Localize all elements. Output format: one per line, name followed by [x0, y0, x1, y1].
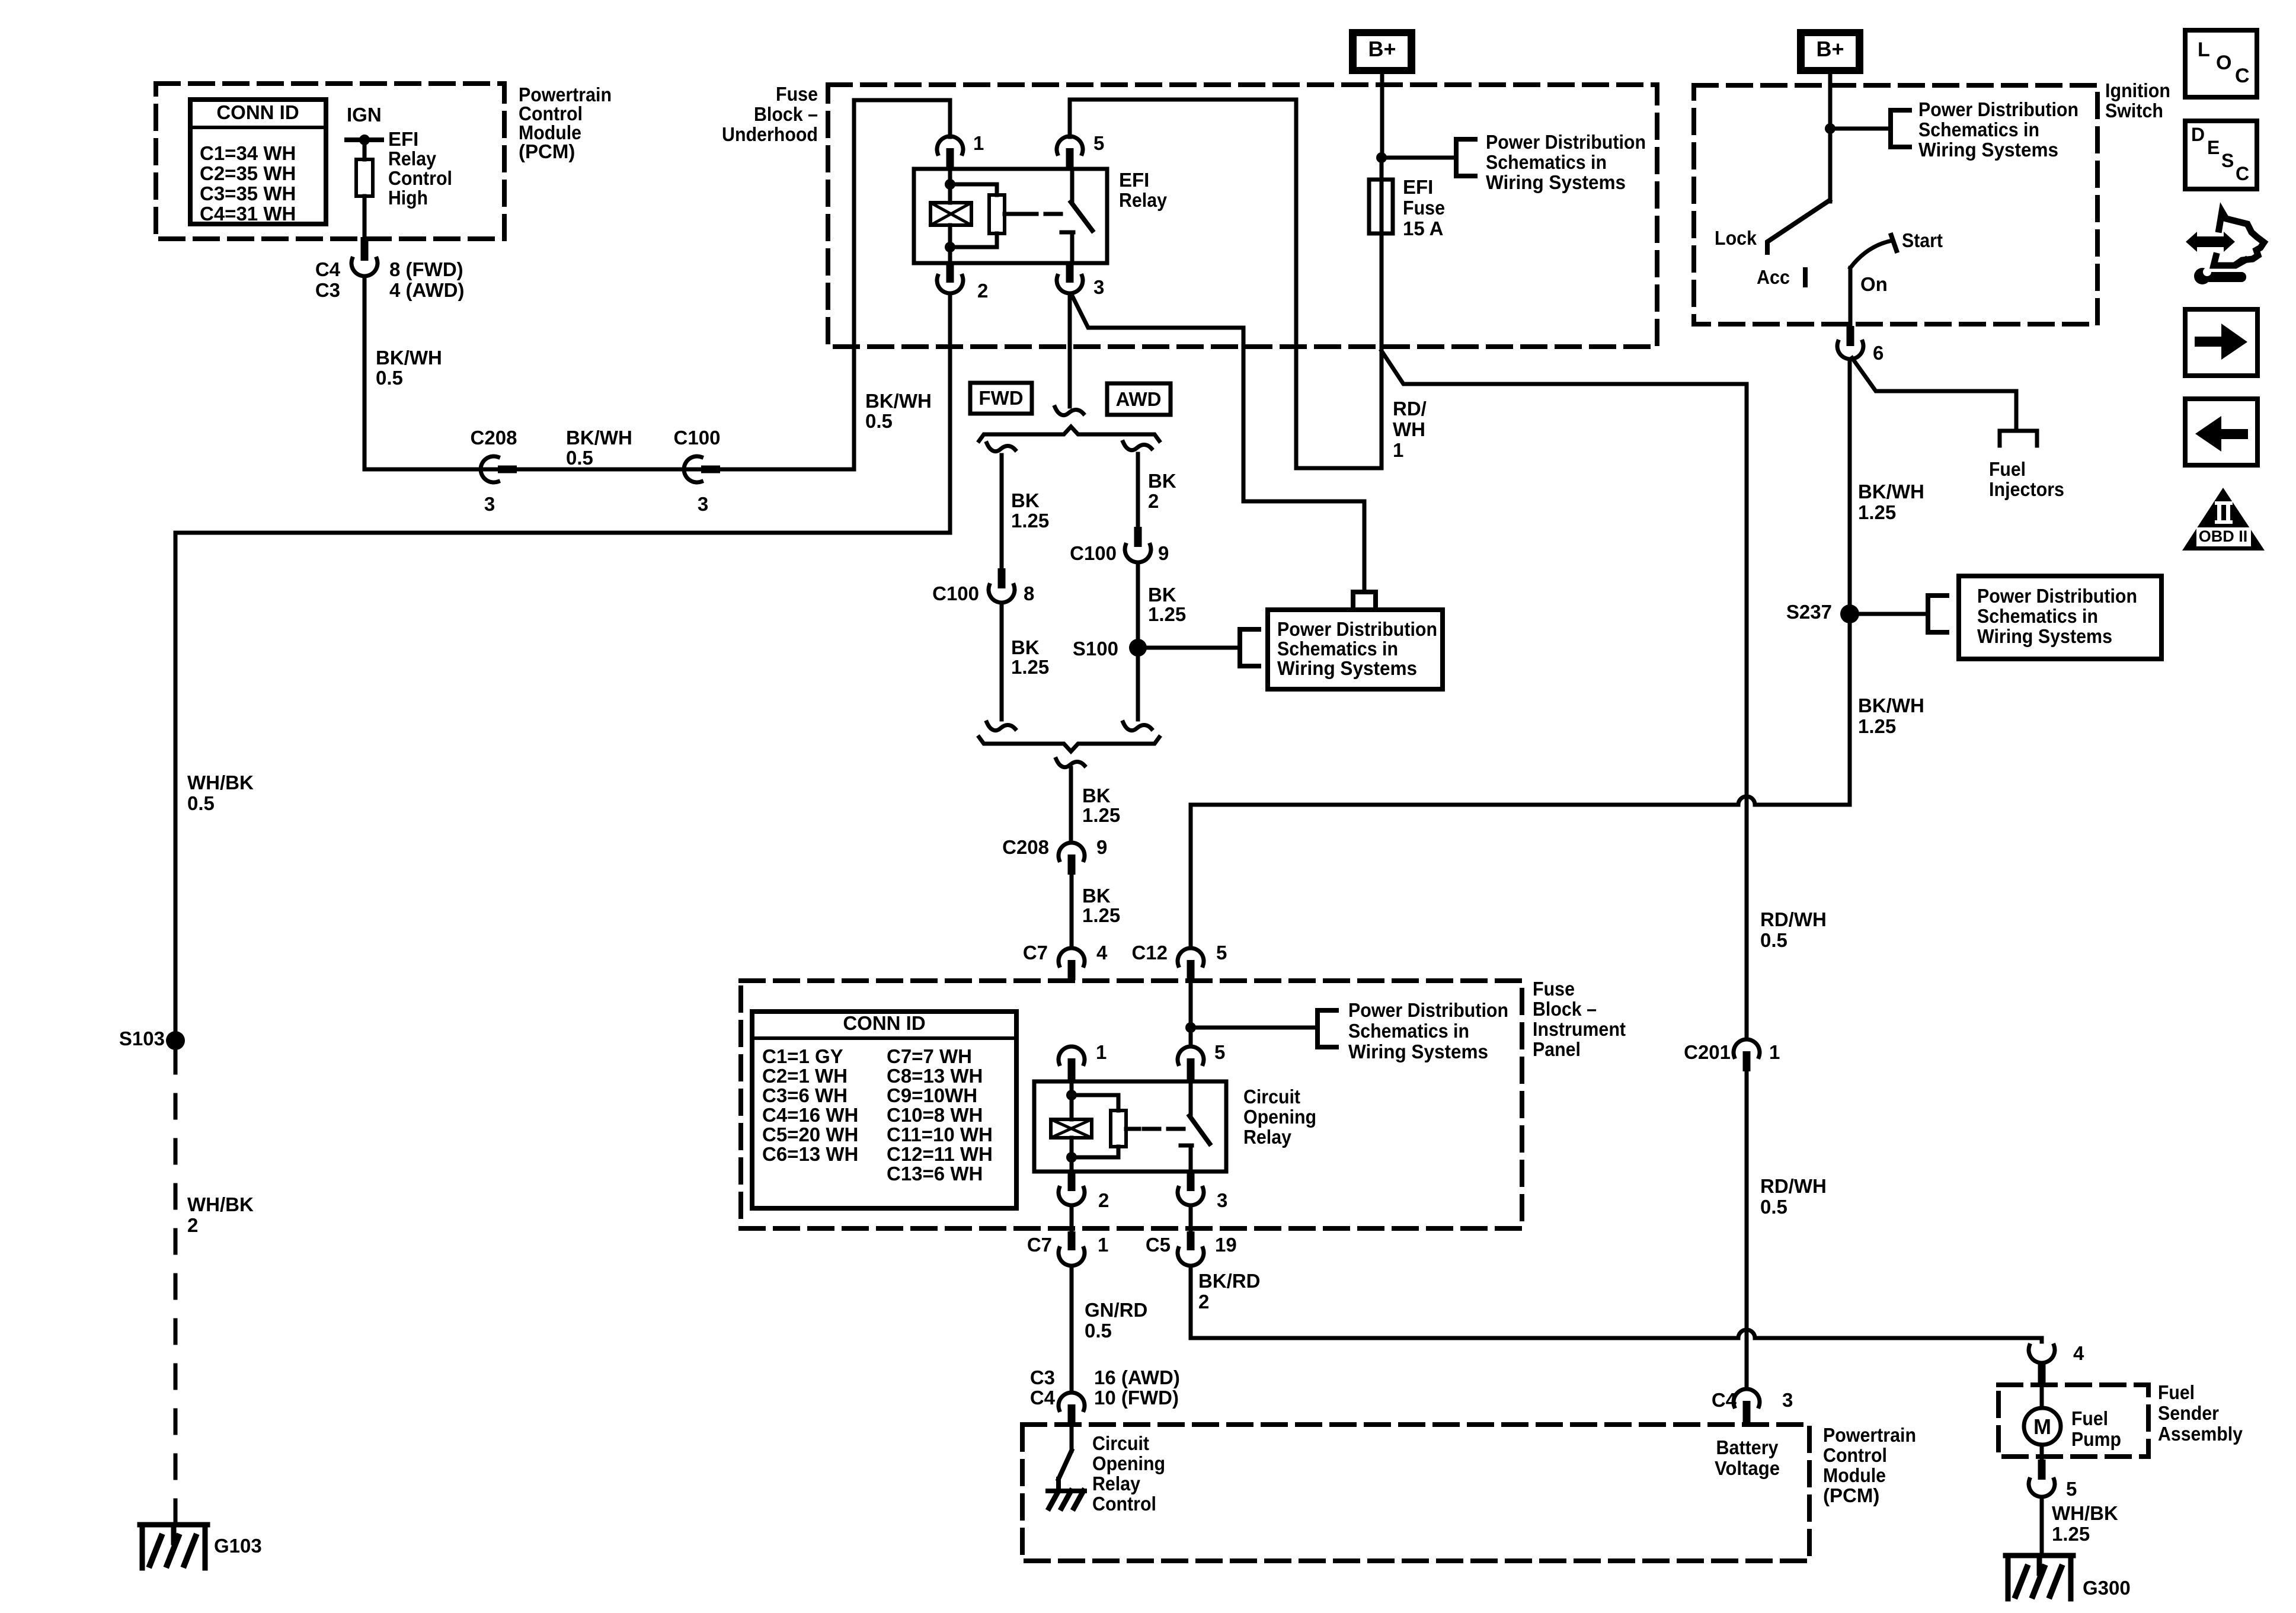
svg-text:Block –: Block – — [754, 103, 818, 125]
pointer bracket to Power Distribution (S100 box top) — [1353, 592, 1376, 608]
label BK/WH 1.25 (lower) — [1858, 695, 1924, 737]
svg-text:WH/BK: WH/BK — [187, 1193, 254, 1215]
svg-text:C208: C208 — [471, 427, 517, 449]
connector C3/C4 pin 16/10 — [1030, 1366, 1180, 1426]
svg-text:BK: BK — [1148, 584, 1176, 606]
svg-text:5: 5 — [1093, 132, 1104, 154]
svg-text:Wiring Systems: Wiring Systems — [1918, 139, 2058, 161]
wire pin3 to split — [1068, 293, 1072, 407]
svg-text:Schematics in: Schematics in — [1977, 605, 2098, 627]
label WH/BK 1.25 (fuel) — [2052, 1502, 2118, 1545]
CONN ID table (PCM) — [190, 100, 326, 225]
svg-text:4 (AWD): 4 (AWD) — [389, 279, 465, 301]
svg-text:Powertrain: Powertrain — [1823, 1424, 1916, 1446]
EFI relay pin 1 connector — [937, 100, 984, 169]
svg-text:C10=8 WH: C10=8 WH — [887, 1104, 983, 1126]
Fuse Block - Instrument Panel box (dashed) — [741, 981, 1522, 1228]
svg-text:1: 1 — [973, 132, 984, 154]
label BK/WH 1.25 (upper) — [1858, 481, 1924, 523]
svg-text:15 A: 15 A — [1403, 217, 1443, 239]
wire ignition feed to C12 riser — [1191, 796, 1850, 948]
svg-text:10 (FWD): 10 (FWD) — [1094, 1387, 1179, 1409]
svg-text:16 (AWD): 16 (AWD) — [1094, 1366, 1180, 1388]
COR pin 3 connector — [1178, 1172, 1227, 1211]
svg-text:BK/WH: BK/WH — [566, 427, 632, 449]
connector C7 pin 4 — [1023, 942, 1108, 980]
svg-text:Wiring Systems: Wiring Systems — [1348, 1041, 1488, 1062]
svg-text:EFI: EFI — [1119, 169, 1149, 191]
connector C201 pin 1 — [1684, 1039, 1780, 1071]
svg-text:S237: S237 — [1786, 601, 1832, 623]
svg-text:AWD: AWD — [1116, 388, 1162, 410]
svg-text:Fuse: Fuse — [1403, 197, 1445, 219]
svg-text:Assembly: Assembly — [2158, 1423, 2243, 1445]
svg-text:CONN ID: CONN ID — [216, 101, 299, 123]
EFI relay pin 5 connector — [1057, 100, 1296, 169]
wire junction to Power Distribution pointer — [1382, 156, 1456, 160]
svg-text:Start: Start — [1902, 229, 1943, 251]
wire S100 to pointer — [1138, 646, 1240, 650]
svg-text:Voltage: Voltage — [1715, 1457, 1780, 1479]
svg-text:D: D — [2191, 124, 2205, 145]
svg-text:Control: Control — [388, 167, 452, 189]
connector C7 pin 1 — [1027, 1231, 1109, 1266]
svg-text:Power Distribution: Power Distribution — [1277, 618, 1437, 640]
svg-text:Fuel: Fuel — [2158, 1381, 2195, 1403]
brace merge bottom — [979, 737, 1159, 751]
svg-text:2: 2 — [1198, 1291, 1209, 1313]
splice S100 — [1073, 638, 1147, 660]
EFI relay coil branch — [930, 169, 971, 263]
label BK 1.25 (to C7) — [1082, 885, 1120, 926]
pointer bracket Power Distribution (underhood) — [1456, 139, 1475, 176]
svg-text:Acc: Acc — [1757, 266, 1790, 288]
svg-text:Wiring Systems: Wiring Systems — [1277, 657, 1417, 679]
svg-text:S103: S103 — [119, 1028, 165, 1049]
wire S237 to pointer — [1850, 612, 1928, 616]
motor Fuel Pump — [2024, 1387, 2061, 1461]
svg-text:Relay: Relay — [1092, 1473, 1141, 1494]
svg-text:1: 1 — [1096, 1041, 1107, 1063]
svg-text:Sender: Sender — [2158, 1402, 2219, 1424]
svg-text:1: 1 — [1769, 1041, 1780, 1063]
label Circuit Opening Relay Control — [1092, 1432, 1165, 1515]
wire to G300 — [2040, 1497, 2044, 1556]
wire RD/WH with hop down to C201 — [1745, 384, 1749, 1039]
svg-text:L: L — [2198, 39, 2210, 61]
svg-text:Fuel: Fuel — [2071, 1407, 2108, 1429]
svg-text:High: High — [388, 187, 428, 209]
svg-text:2: 2 — [1148, 490, 1159, 512]
svg-text:G300: G300 — [2083, 1577, 2131, 1599]
svg-text:B+: B+ — [1368, 37, 1396, 61]
svg-text:M: M — [2033, 1414, 2051, 1439]
COR pin 2 connector — [1059, 1172, 1109, 1211]
svg-text:O: O — [2216, 52, 2231, 74]
svg-text:19: 19 — [1215, 1234, 1237, 1256]
svg-text:1.25: 1.25 — [1082, 804, 1120, 826]
svg-text:Schematics in: Schematics in — [1277, 638, 1398, 660]
svg-text:0.5: 0.5 — [1760, 1196, 1787, 1218]
wire RD/WH to PCM — [1745, 1071, 1749, 1388]
svg-text:C100: C100 — [1070, 542, 1117, 564]
svg-text:Circuit: Circuit — [1243, 1086, 1300, 1108]
svg-text:0.5: 0.5 — [566, 447, 593, 469]
connector C4 pin 3 (battery voltage) — [1712, 1389, 1793, 1426]
wire pin5 loop — [1070, 100, 1382, 468]
svg-text:Opening: Opening — [1092, 1452, 1165, 1474]
label Powertrain Control Module (PCM) bottom — [1823, 1424, 1916, 1506]
wire BK/WH 1.25 to S237 — [1848, 359, 1852, 805]
svg-text:C4: C4 — [1712, 1389, 1737, 1411]
svg-text:BK/RD: BK/RD — [1198, 1270, 1261, 1292]
svg-text:WH/BK: WH/BK — [187, 772, 254, 793]
label Circuit Opening Relay — [1243, 1086, 1316, 1148]
svg-text:C3=6 WH: C3=6 WH — [762, 1084, 848, 1106]
wire B+ to junction — [1380, 74, 1384, 158]
svg-text:EFI: EFI — [1403, 176, 1433, 198]
svg-text:3: 3 — [1093, 276, 1104, 298]
svg-text:BK: BK — [1082, 885, 1111, 907]
label FWD box — [970, 383, 1032, 414]
wire AWD branch lower — [1136, 562, 1140, 719]
svg-text:5: 5 — [2066, 1478, 2077, 1500]
svg-text:1: 1 — [1098, 1234, 1108, 1256]
svg-text:C201: C201 — [1684, 1041, 1731, 1063]
svg-text:(PCM): (PCM) — [519, 140, 575, 162]
svg-text:C3: C3 — [1030, 1366, 1055, 1388]
svg-text:0.5: 0.5 — [187, 792, 215, 814]
node IGN — [347, 104, 382, 145]
wire B+ to ignition junction — [1828, 74, 1833, 201]
svg-text:Panel: Panel — [1533, 1038, 1581, 1060]
svg-text:Wiring Systems: Wiring Systems — [1977, 625, 2112, 647]
svg-text:BK: BK — [1082, 785, 1111, 806]
svg-text:5: 5 — [1214, 1041, 1225, 1063]
svg-text:BK/WH: BK/WH — [1858, 481, 1924, 503]
svg-text:C1=34 WH: C1=34 WH — [200, 142, 296, 164]
Ignition Switch box (dashed) — [1694, 85, 2097, 324]
wire to IP pointer — [1191, 1026, 1318, 1030]
svg-text:5: 5 — [1216, 942, 1227, 964]
switch Circuit Opening Relay Control — [1048, 1426, 1085, 1508]
svg-text:C2=35 WH: C2=35 WH — [200, 162, 296, 184]
icon OBD II triangle — [2182, 488, 2265, 551]
svg-text:C12: C12 — [1131, 942, 1168, 964]
svg-text:2: 2 — [187, 1214, 198, 1236]
wire RD/WH diagonal exit — [1382, 351, 1747, 384]
svg-text:Wiring Systems: Wiring Systems — [1486, 171, 1626, 193]
svg-text:C6=13 WH: C6=13 WH — [762, 1143, 858, 1165]
wire horizontal BK/WH run — [364, 468, 854, 472]
svg-text:C11=10 WH: C11=10 WH — [887, 1124, 993, 1145]
svg-text:1.25: 1.25 — [1858, 501, 1896, 523]
label Ignition Switch — [2105, 79, 2170, 121]
label RD/WH 0.5 (lower) — [1760, 1175, 1827, 1218]
connector fuel pin 5 — [2029, 1460, 2077, 1500]
svg-text:Schematics in: Schematics in — [1348, 1020, 1469, 1042]
svg-text:RD/WH: RD/WH — [1760, 1175, 1827, 1197]
svg-text:9: 9 — [1096, 836, 1107, 858]
pointer bracket Power Distribution (ignition) — [1891, 110, 1910, 147]
label Powertrain Control Module (PCM) — [519, 84, 612, 162]
wire through fuse — [1380, 158, 1384, 468]
connector C100 pin 3 — [674, 427, 721, 515]
svg-text:C7: C7 — [1027, 1234, 1052, 1256]
svg-text:8: 8 — [1024, 583, 1034, 604]
power symbol B+ (ignition) — [1797, 29, 1863, 74]
Fuse Block - Underhood box (dashed) — [828, 85, 1657, 347]
svg-text:Control: Control — [1092, 1493, 1156, 1515]
junction dot ignition — [1825, 123, 1835, 134]
svg-text:Fuse: Fuse — [776, 83, 818, 105]
splice S237 — [1786, 601, 1859, 623]
label Power Distribution Schematics in Wiring Systems (instrument panel) — [1348, 999, 1508, 1062]
COR switch — [1144, 1081, 1210, 1172]
label Fuel Injectors — [1989, 458, 2064, 500]
ground G300 — [2006, 1556, 2131, 1599]
svg-text:9: 9 — [1158, 542, 1169, 564]
svg-text:1.25: 1.25 — [1011, 656, 1049, 678]
wire IGN to resistor — [363, 140, 367, 159]
svg-text:1.25: 1.25 — [2052, 1523, 2090, 1545]
svg-text:BK/WH: BK/WH — [376, 347, 442, 369]
label GN/RD 0.5 — [1085, 1299, 1147, 1342]
svg-text:1.25: 1.25 — [1011, 510, 1049, 532]
label EFI Relay — [1119, 169, 1168, 211]
svg-text:Injectors: Injectors — [1989, 478, 2064, 500]
svg-text:8 (FWD): 8 (FWD) — [389, 258, 463, 280]
svg-text:C208: C208 — [1002, 836, 1049, 858]
svg-text:FWD: FWD — [978, 387, 1023, 409]
svg-text:C5: C5 — [1146, 1234, 1171, 1256]
svg-text:Ignition: Ignition — [2105, 79, 2170, 101]
label WH/BK 0.5 — [187, 772, 254, 814]
svg-text:1.25: 1.25 — [1858, 715, 1896, 737]
svg-text:C9=10WH: C9=10WH — [887, 1084, 977, 1106]
svg-text:C1=1 GY: C1=1 GY — [762, 1045, 843, 1067]
relay Circuit Opening Relay box — [1034, 1081, 1226, 1172]
relay EFI Relay box — [914, 169, 1107, 263]
label BK/WH 0.5 mid — [566, 427, 632, 469]
svg-text:4: 4 — [1096, 942, 1108, 964]
icon arrow left box — [2185, 399, 2257, 465]
svg-text:Power Distribution: Power Distribution — [1977, 585, 2137, 607]
break symbol on pin3 wire — [1055, 407, 1083, 415]
svg-text:3: 3 — [1217, 1189, 1227, 1211]
wire BK 1.25 to C7 — [1070, 875, 1074, 948]
svg-text:RD/: RD/ — [1393, 398, 1427, 420]
svg-text:C7: C7 — [1023, 942, 1048, 964]
svg-text:C3=35 WH: C3=35 WH — [200, 183, 296, 204]
power symbol B+ (fuse block) — [1349, 29, 1415, 74]
svg-text:OBD II: OBD II — [2199, 527, 2248, 545]
svg-text:E: E — [2207, 137, 2220, 158]
pointer bracket S237 — [1928, 596, 1947, 632]
svg-text:Lock: Lock — [1715, 227, 1757, 249]
wire resistor to connector C4/C3 — [363, 196, 367, 238]
svg-text:Power Distribution: Power Distribution — [1486, 131, 1646, 153]
wire WH/BK 0.5 left run — [175, 293, 950, 1041]
EFI relay switch — [1021, 169, 1092, 263]
label Battery Voltage — [1715, 1436, 1780, 1479]
svg-text:3: 3 — [698, 493, 708, 515]
brace split top — [979, 427, 1159, 441]
pointer bracket S100 — [1240, 629, 1259, 666]
connector C100 pin 9 — [1070, 527, 1169, 564]
label BK/WH 0.5 riser — [865, 390, 932, 432]
label EFI Fuse 15 A — [1403, 176, 1445, 239]
label BK 1.25 (merged) — [1082, 785, 1120, 826]
svg-text:Block –: Block – — [1533, 998, 1597, 1020]
wire On to pin 6 — [1849, 268, 1853, 327]
svg-text:C100: C100 — [674, 427, 721, 449]
svg-text:1.25: 1.25 — [1148, 603, 1186, 625]
connector C12 pin 5 — [1131, 942, 1227, 980]
label BK/WH 0.5 — [376, 347, 442, 389]
svg-text:CONN ID: CONN ID — [843, 1012, 925, 1034]
svg-text:Relay: Relay — [1119, 189, 1168, 211]
label BK 1.25 (FWD lower) — [1011, 636, 1049, 678]
svg-text:BK: BK — [1148, 470, 1176, 492]
EFI relay internal resistor — [955, 184, 1018, 247]
fuel injectors bracket — [2000, 431, 2037, 446]
svg-text:C4=16 WH: C4=16 WH — [762, 1104, 858, 1126]
svg-text:4: 4 — [2073, 1342, 2084, 1364]
svg-text:Relay: Relay — [388, 148, 437, 169]
svg-text:2: 2 — [977, 280, 988, 302]
svg-text:2: 2 — [1098, 1189, 1109, 1211]
svg-text:3: 3 — [484, 493, 495, 515]
svg-text:0.5: 0.5 — [376, 367, 403, 389]
svg-text:WH: WH — [1393, 418, 1425, 440]
icon DESC box — [2185, 121, 2257, 189]
svg-text:3: 3 — [1782, 1389, 1793, 1411]
label BK 2 (AWD) — [1148, 470, 1176, 512]
icon LOC box — [2185, 30, 2257, 97]
switch Lock arm — [1715, 200, 1830, 252]
svg-text:1: 1 — [1393, 439, 1403, 461]
connector C208 pin 9 — [1002, 836, 1107, 875]
wire to Power Distribution pointer (ignition) — [1830, 127, 1891, 131]
CONN ID table (instrument panel) — [752, 1012, 1016, 1208]
label Acc and contact — [1757, 266, 1805, 288]
svg-text:C3: C3 — [315, 279, 340, 301]
svg-text:Circuit: Circuit — [1092, 1432, 1149, 1454]
wire COR pin3 to C5-19 — [1189, 1205, 1193, 1233]
svg-text:Fuse: Fuse — [1533, 978, 1575, 1000]
COR pin 5 connector — [1178, 1041, 1225, 1083]
svg-text:BK: BK — [1011, 636, 1040, 658]
svg-text:C12=11 WH: C12=11 WH — [887, 1143, 993, 1165]
break symbol FWD branch bottom — [987, 722, 1015, 731]
box Power Distribution Schematics (S100) — [1268, 610, 1443, 689]
svg-text:Schematics in: Schematics in — [1486, 151, 1607, 173]
wire pin3 diagonal branch to IP pointer — [1073, 297, 1364, 592]
svg-text:BK/WH: BK/WH — [1858, 695, 1924, 716]
svg-text:GN/RD: GN/RD — [1085, 1299, 1147, 1321]
connector C100 pin 8 — [932, 568, 1034, 604]
connector C208 pin 3 — [471, 427, 517, 515]
PCM box (Powertrain Control Module, dashed) — [156, 84, 504, 239]
svg-text:Power Distribution: Power Distribution — [1348, 999, 1508, 1021]
svg-text:On: On — [1860, 273, 1888, 295]
svg-text:WH/BK: WH/BK — [2052, 1502, 2118, 1524]
svg-text:0.5: 0.5 — [1085, 1320, 1112, 1342]
svg-text:BK/WH: BK/WH — [865, 390, 932, 412]
connector C4/C3 pin 8 (FWD) / 4 (AWD) — [315, 237, 465, 301]
Fuel Sender Assembly box (dashed) — [1998, 1385, 2148, 1457]
svg-text:BK: BK — [1011, 489, 1040, 511]
svg-text:C: C — [2235, 65, 2250, 87]
icon arrow right box — [2185, 309, 2257, 376]
label EFI Relay Control High — [388, 128, 452, 209]
label AWD box — [1107, 383, 1171, 415]
svg-text:Control: Control — [1823, 1444, 1887, 1466]
fuse EFI Fuse 15 A — [1369, 180, 1393, 233]
label Fuse Block - Underhood — [722, 83, 818, 145]
wire GN/RD down — [1070, 1266, 1074, 1393]
svg-text:(PCM): (PCM) — [1823, 1484, 1879, 1506]
wire up to fuse block — [854, 100, 950, 469]
svg-text:Power Distribution: Power Distribution — [1918, 98, 2078, 120]
junction dot fuse feed — [1376, 152, 1387, 163]
svg-text:S100: S100 — [1073, 638, 1118, 660]
wire COR pin2 to C7-1 — [1070, 1205, 1074, 1233]
label Power Distribution Schematics in Wiring Systems (underhood) — [1486, 131, 1646, 193]
ground G103 — [140, 1525, 262, 1568]
label BK 1.25 (AWD) — [1148, 584, 1186, 625]
svg-text:C4=31 WH: C4=31 WH — [200, 203, 296, 225]
svg-text:6: 6 — [1873, 342, 1884, 364]
PCM bottom box (dashed) — [1022, 1425, 1809, 1561]
svg-text:Instrument: Instrument — [1533, 1018, 1626, 1040]
COR pin 1 connector — [1059, 1041, 1107, 1083]
svg-text:RD/WH: RD/WH — [1760, 908, 1827, 930]
resistor EFI Relay Control High — [356, 159, 373, 196]
svg-text:S: S — [2221, 150, 2234, 171]
junction dot IP pointer — [1185, 1022, 1196, 1033]
label RD/WH 0.5 (upper) — [1760, 908, 1827, 951]
svg-text:C13=6 WH: C13=6 WH — [887, 1163, 983, 1185]
svg-text:C100: C100 — [932, 583, 979, 604]
svg-text:Module: Module — [1823, 1464, 1886, 1486]
connector fuel pin 4 — [2029, 1342, 2084, 1387]
svg-text:EFI: EFI — [388, 128, 418, 150]
svg-text:Switch: Switch — [2105, 100, 2163, 121]
label Power Distribution Schematics in Wiring Systems (ignition) — [1918, 98, 2078, 161]
svg-text:C: C — [2236, 163, 2249, 184]
svg-text:0.5: 0.5 — [1760, 929, 1787, 951]
box Power Distribution Schematics (S237) — [1959, 576, 2161, 659]
svg-text:C4: C4 — [1030, 1387, 1056, 1409]
wire FWD branch lower — [1000, 604, 1004, 719]
label Fuel Sender Assembly — [2158, 1381, 2243, 1445]
svg-text:Pump: Pump — [2071, 1428, 2121, 1450]
label BK/RD 2 — [1198, 1270, 1261, 1313]
icon vehicle with wrench — [2186, 212, 2264, 284]
EFI relay pin 2 connector — [937, 263, 988, 302]
switch Start contact — [1850, 229, 1943, 268]
svg-text:IGN: IGN — [347, 104, 382, 126]
wire merged BK 1.25 down — [1056, 759, 1085, 843]
svg-text:Underhood: Underhood — [722, 123, 818, 145]
wire to fuel injectors — [1852, 358, 2016, 431]
break symbol AWD branch bottom — [1123, 722, 1152, 731]
EFI relay pin 3 connector — [1057, 263, 1104, 298]
svg-text:C4: C4 — [315, 258, 341, 280]
wire BK/WH 0.5 from PCM down — [363, 276, 367, 469]
